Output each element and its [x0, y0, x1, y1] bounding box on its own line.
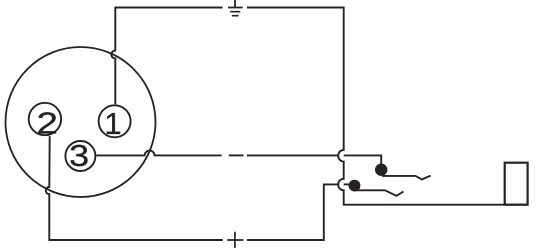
svg-text:1: 1	[104, 106, 121, 141]
svg-text:3: 3	[69, 138, 89, 173]
svg-text:2: 2	[37, 106, 59, 141]
